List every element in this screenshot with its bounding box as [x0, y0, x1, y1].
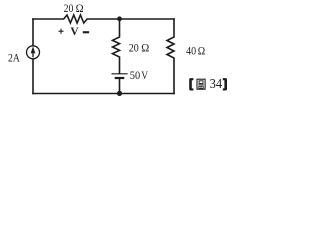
svg-text:40: 40 [186, 43, 196, 57]
svg-text:34: 34 [210, 76, 223, 91]
svg-text:V: V [141, 68, 148, 82]
svg-text:20: 20 [129, 41, 139, 55]
svg-text:Ω: Ω [76, 1, 84, 15]
svg-text:Ω: Ω [198, 43, 205, 57]
svg-text:V: V [70, 26, 79, 38]
svg-text:50: 50 [130, 68, 140, 82]
svg-text:20: 20 [64, 1, 74, 15]
svg-text:2A: 2A [8, 50, 20, 64]
svg-text:Ω: Ω [141, 41, 149, 55]
